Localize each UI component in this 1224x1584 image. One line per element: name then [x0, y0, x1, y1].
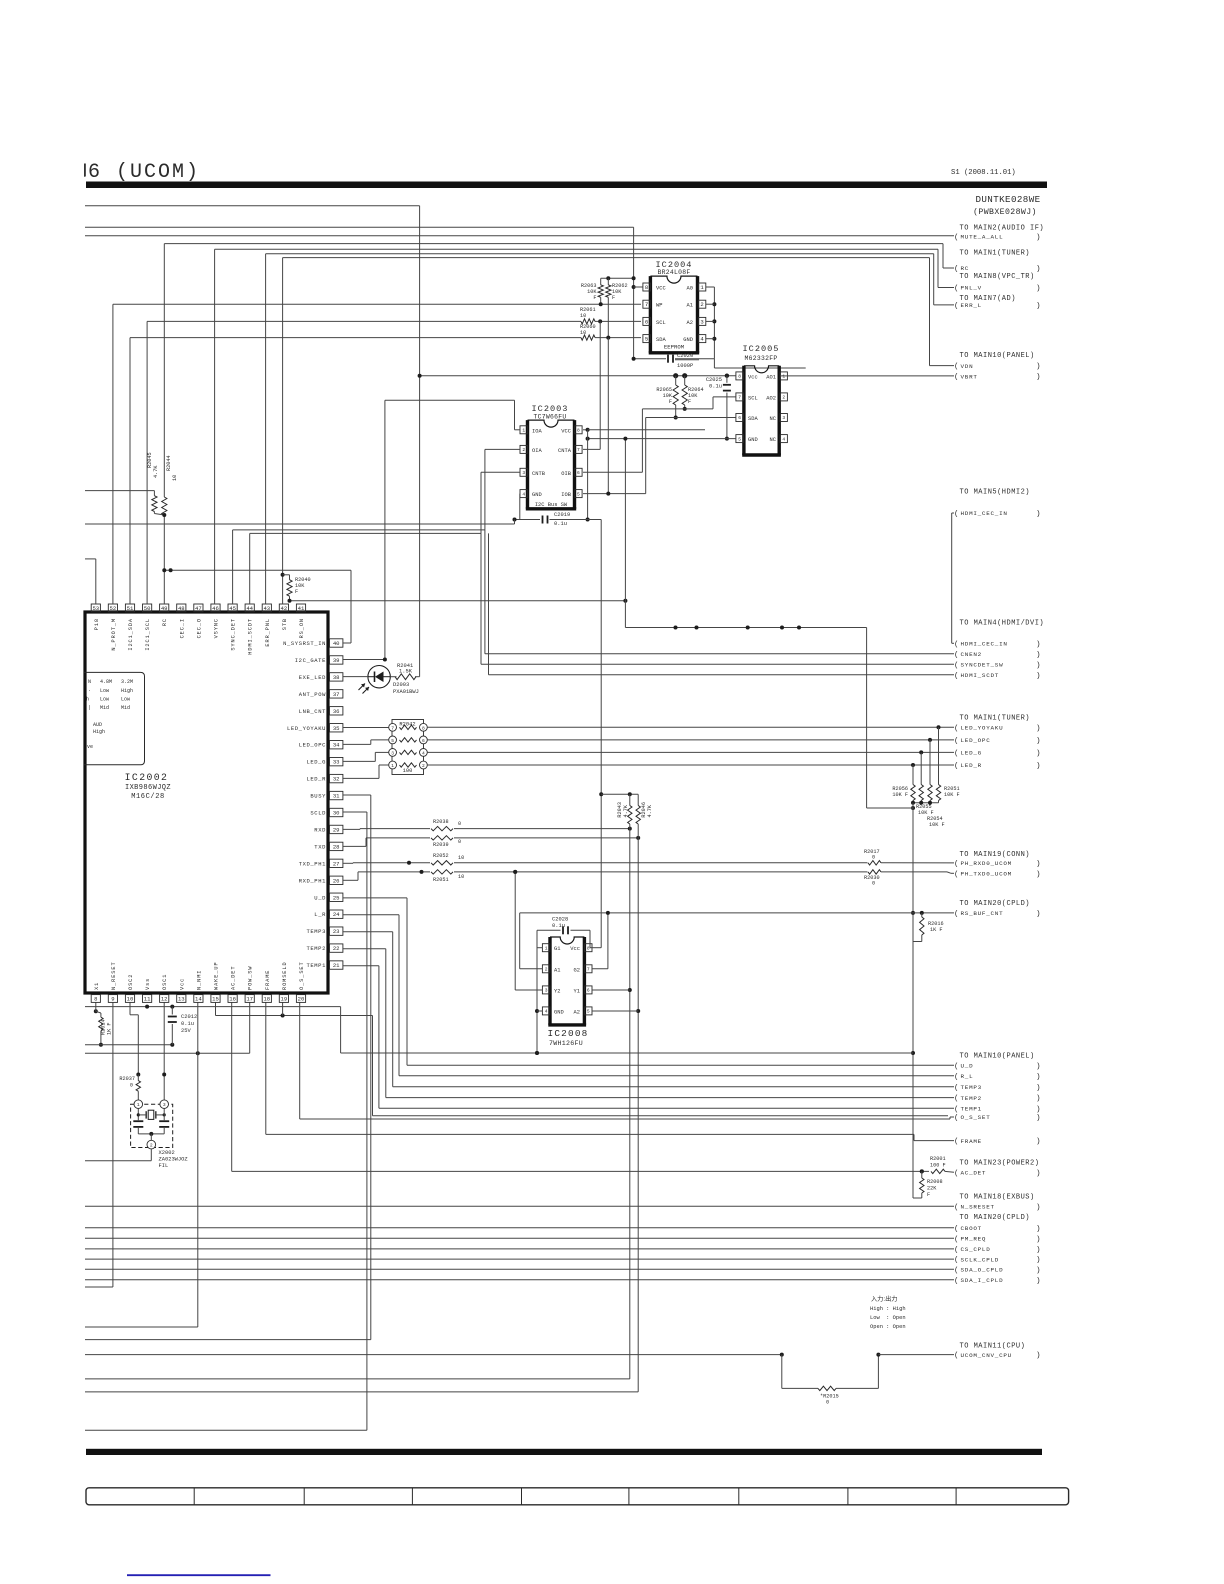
svg-text:): )	[1036, 363, 1041, 371]
svg-text:SYNCDET_SW: SYNCDET_SW	[961, 662, 1004, 669]
svg-text:TO MAIN20(CPLD): TO MAIN20(CPLD)	[960, 1214, 1031, 1222]
svg-text:L_R: L_R	[314, 911, 326, 918]
svg-text:O_S_SET: O_S_SET	[961, 1114, 991, 1121]
wire IC2005 SDA run	[646, 417, 736, 419]
svg-text:A2: A2	[687, 320, 693, 326]
wire pin29 RXD line	[343, 828, 360, 830]
svg-text:1K F: 1K F	[930, 927, 942, 933]
svg-text:SCLD: SCLD	[310, 810, 326, 817]
wire pin24 L_R run	[343, 914, 399, 916]
svg-text:): )	[1036, 266, 1041, 274]
wire IC2003 GND pin to C2019	[519, 493, 521, 495]
svg-text:TO MAIN20(CPLD): TO MAIN20(CPLD)	[960, 900, 1031, 908]
resistor R2008 22K F	[920, 1169, 924, 1173]
svg-text:UCOM_CNV_CPU: UCOM_CNV_CPU	[961, 1352, 1012, 1359]
svg-text:SDA: SDA	[656, 337, 666, 343]
svg-text:(: (	[954, 285, 959, 293]
svg-text:22: 22	[333, 945, 340, 952]
svg-text:TEMP1: TEMP1	[306, 962, 326, 969]
microcontroller IC2002 body outline	[85, 612, 328, 993]
IC2005 left pin boxes	[736, 372, 743, 380]
svg-text:35: 35	[333, 725, 340, 732]
svg-text:CNTB: CNTB	[532, 471, 546, 477]
svg-text:47: 47	[195, 605, 202, 612]
wire G1 rail to GND chain	[537, 1052, 913, 1054]
IC2003 left pin boxes	[520, 426, 527, 434]
svg-text:4: 4	[782, 436, 785, 442]
wire R2063 bottom to WP	[600, 297, 602, 304]
resistor R2064 10K F	[682, 385, 687, 405]
wire pin53 to left edge	[85, 558, 96, 560]
svg-text:SCL: SCL	[656, 320, 666, 326]
svg-text:15: 15	[212, 996, 219, 1003]
svg-text:TO MAIN4(HDMI/DVI): TO MAIN4(HDMI/DVI)	[960, 620, 1045, 628]
wire pin39 I2C_GATE to rail	[343, 659, 385, 661]
svg-text:LED_G: LED_G	[961, 750, 982, 757]
svg-text:BUSY: BUSY	[310, 793, 326, 800]
svg-text:IC2005: IC2005	[743, 344, 780, 354]
svg-text:ANT_POW: ANT_POW	[299, 691, 326, 698]
svg-text:ve: ve	[87, 744, 93, 750]
svg-text:6: 6	[587, 988, 590, 994]
svg-text:R2001: R2001	[930, 1156, 946, 1162]
svg-text:F: F	[927, 1192, 930, 1198]
svg-text:SDA_I_CPLD: SDA_I_CPLD	[961, 1277, 1004, 1284]
wire pin51 SDA line	[130, 337, 581, 339]
svg-text:Vcc: Vcc	[179, 978, 185, 990]
svg-text:High: High	[121, 688, 133, 694]
wire HDMI_CEC bracket	[951, 513, 953, 643]
wire RS_BUF_CNT line	[520, 912, 954, 914]
svg-text:7: 7	[577, 447, 580, 453]
svg-text:F: F	[295, 589, 298, 595]
svg-text:53: 53	[92, 605, 99, 612]
svg-text:N_SYSRST_IN: N_SYSRST_IN	[283, 640, 326, 647]
IC2004 right pin boxes	[698, 283, 705, 291]
footer link underline (blue)	[127, 1574, 271, 1576]
svg-text:(: (	[954, 1095, 959, 1103]
svg-text:6: 6	[738, 415, 741, 421]
svg-text:TO MAIN18(EXBUS): TO MAIN18(EXBUS)	[960, 1194, 1035, 1202]
capacitor C2028 0.1u	[537, 929, 561, 931]
svg-text:(: (	[954, 861, 959, 869]
svg-text:I2C1_SDA: I2C1_SDA	[128, 618, 134, 651]
svg-text:TO MAIN8(VPC_TR): TO MAIN8(VPC_TR)	[960, 273, 1035, 281]
wire LED_R long line	[427, 764, 954, 766]
svg-text:8: 8	[577, 427, 580, 433]
svg-text:(: (	[954, 1225, 959, 1233]
resistor R2043 4.7K	[629, 794, 631, 805]
svg-text:): )	[1036, 662, 1041, 670]
svg-text:7: 7	[391, 725, 394, 731]
wire GND chain to R2008	[913, 1197, 922, 1199]
svg-text:11: 11	[144, 996, 151, 1003]
svg-text:10: 10	[458, 855, 464, 861]
wire IC2005 AO1 to VBRT	[787, 375, 954, 377]
resistor R2040 10K F	[281, 573, 285, 577]
svg-text:D2003: D2003	[393, 682, 409, 688]
svg-text:CNEN2: CNEN2	[961, 651, 982, 658]
svg-text:): )	[1036, 1073, 1041, 1081]
svg-text:5: 5	[738, 436, 741, 442]
svg-text:CEC_O: CEC_O	[196, 618, 202, 638]
svg-text:EXE_LED: EXE_LED	[299, 674, 326, 681]
svg-text:STB: STB	[282, 618, 288, 630]
svg-text:0.1u: 0.1u	[709, 384, 722, 390]
wire IC2005 GND run	[588, 438, 736, 440]
wire HDMI_SCDT line	[489, 674, 955, 676]
wire IC2008 A1 up	[520, 968, 543, 970]
svg-text:42: 42	[281, 605, 288, 612]
wire pin16 AC_DET run	[231, 1003, 233, 1172]
svg-text:(: (	[954, 374, 959, 382]
svg-text:52: 52	[110, 605, 117, 612]
svg-text:C2025: C2025	[706, 377, 722, 383]
svg-text:CBOOT: CBOOT	[961, 1225, 982, 1232]
capacitor C2012 0.1u 25V	[171, 1007, 173, 1015]
svg-text:A1: A1	[687, 303, 693, 309]
svg-text:ZA023WJOZ: ZA023WJOZ	[159, 1157, 189, 1163]
svg-text:31: 31	[333, 793, 340, 800]
svg-text:26: 26	[333, 877, 340, 884]
wire pin14 N_NMI loop	[197, 1003, 199, 1328]
capacitor C2025 0.1u	[726, 376, 728, 383]
svg-text:0: 0	[458, 821, 461, 827]
svg-text:R_L: R_L	[961, 1073, 974, 1080]
svg-text:18: 18	[263, 996, 270, 1003]
svg-text:): )	[1036, 1257, 1041, 1265]
svg-text:4: 4	[522, 491, 525, 497]
svg-text:Low : Open: Low : Open	[870, 1315, 906, 1321]
svg-text:TC7W66FU: TC7W66FU	[533, 414, 566, 421]
svg-text:C2028: C2028	[552, 917, 568, 923]
svg-text:RS_ON: RS_ON	[299, 618, 305, 638]
svg-text:TO MAIN10(PANEL): TO MAIN10(PANEL)	[960, 352, 1035, 360]
svg-text:5: 5	[645, 336, 648, 343]
svg-text:7: 7	[587, 966, 590, 972]
svg-text:3: 3	[391, 750, 394, 756]
resistor R2052 10	[431, 861, 453, 865]
svg-text:*R2015: *R2015	[820, 1394, 839, 1400]
svg-text:0: 0	[826, 1400, 829, 1406]
svg-text:33: 33	[333, 759, 340, 766]
svg-text:8: 8	[645, 284, 648, 291]
svg-text:U_D: U_D	[961, 1062, 974, 1069]
svg-text:R2039: R2039	[433, 842, 449, 848]
resistor R2017 0 on PH_RXD0	[868, 861, 881, 865]
svg-text:R2008: R2008	[927, 1179, 943, 1185]
svg-text:HDMI_SCDT: HDMI_SCDT	[248, 618, 254, 655]
svg-text:36: 36	[333, 708, 340, 715]
svg-text:4: 4	[545, 1009, 548, 1015]
svg-text:8: 8	[422, 725, 425, 731]
svg-text:0.1u: 0.1u	[554, 521, 567, 527]
wire C2028 right to Vcc	[589, 930, 591, 947]
svg-text:LED_G: LED_G	[306, 759, 326, 766]
svg-text:Y2: Y2	[554, 988, 560, 994]
svg-text:8: 8	[738, 374, 741, 380]
svg-text:45: 45	[229, 605, 236, 612]
wire LED_G long line	[427, 751, 954, 753]
wire crystal pin2 to left edge	[150, 1149, 152, 1161]
svg-text:24: 24	[333, 911, 340, 918]
resistor R2044 10 on RC line	[162, 497, 167, 515]
svg-text:TEMP3: TEMP3	[306, 928, 326, 935]
svg-text:): )	[1036, 1106, 1041, 1114]
svg-text:TO MAIN23(POWER2): TO MAIN23(POWER2)	[960, 1160, 1040, 1168]
svg-text:(: (	[954, 871, 959, 879]
svg-text:): )	[1036, 725, 1041, 733]
svg-text:(: (	[954, 750, 959, 758]
svg-text:10: 10	[172, 475, 178, 481]
svg-text:): )	[1036, 1352, 1041, 1360]
svg-text:VBRT: VBRT	[961, 373, 978, 380]
svg-text:0: 0	[872, 855, 875, 861]
svg-text:21: 21	[333, 962, 340, 969]
svg-text:M62332FP: M62332FP	[744, 355, 777, 362]
resistor R2016 1K F	[920, 911, 924, 915]
svg-text:8: 8	[587, 945, 590, 951]
svg-text:0.1u: 0.1u	[181, 1021, 194, 1027]
svg-text:7WH126FU: 7WH126FU	[549, 1040, 583, 1047]
wire vertical x=419.6 (I2C_GATE/Vcc rail)	[419, 206, 421, 677]
svg-text:): )	[1036, 641, 1041, 649]
svg-text:PXA01BWJ: PXA01BWJ	[393, 689, 419, 695]
capacitor C2019 0.1u	[515, 519, 541, 521]
svg-text:C2020: C2020	[677, 353, 693, 359]
svg-text:4: 4	[422, 750, 425, 756]
svg-text:5: 5	[587, 1009, 590, 1015]
svg-text:46: 46	[212, 605, 219, 612]
svg-text:TO MAIN11(CPU): TO MAIN11(CPU)	[960, 1342, 1026, 1350]
svg-text:17: 17	[246, 996, 253, 1003]
svg-text:(: (	[954, 662, 959, 670]
wire pin33 LED_G jog	[343, 760, 375, 762]
svg-text:IC2002: IC2002	[125, 772, 169, 783]
svg-text:10: 10	[580, 330, 586, 336]
resistor R2062 10K F	[606, 285, 611, 297]
svg-text:P18: P18	[94, 618, 100, 630]
wire pin22 TEMP2 run	[343, 948, 386, 950]
wire pin23 TEMP3 run	[343, 931, 393, 933]
svg-text:40: 40	[333, 640, 340, 647]
svg-text:IC2003: IC2003	[532, 404, 569, 414]
svg-text:TO MAIN19(CONN): TO MAIN19(CONN)	[960, 851, 1031, 859]
wire pin49 RC staircase	[164, 243, 943, 245]
wire V630 down from RXD	[629, 829, 631, 1379]
wire down to GND chain	[866, 628, 868, 809]
svg-text:A1: A1	[554, 967, 560, 973]
svg-text:LED_OPC: LED_OPC	[299, 742, 326, 749]
IC2004 EEPROM body	[650, 276, 697, 283]
IC2003 body	[528, 420, 575, 427]
svg-text:25: 25	[333, 894, 340, 901]
svg-text:X2002: X2002	[159, 1150, 175, 1156]
svg-text:LED_R: LED_R	[306, 776, 326, 783]
svg-text:41: 41	[298, 605, 305, 612]
svg-text:6: 6	[422, 738, 425, 744]
svg-text:LED_YOYAKU: LED_YOYAKU	[961, 725, 1004, 732]
svg-text:(: (	[954, 1115, 959, 1123]
svg-text:3: 3	[782, 415, 785, 421]
resistor array R2042 outline	[392, 720, 424, 775]
wire CNEN2 line	[485, 653, 954, 655]
wire IC2008 G2 up	[592, 968, 608, 970]
svg-text:CEC_I: CEC_I	[179, 618, 185, 638]
svg-text:R2038: R2038	[433, 819, 449, 825]
svg-text:): )	[1036, 763, 1041, 771]
svg-text:3: 3	[522, 470, 525, 476]
resistor R2037 0	[137, 1075, 139, 1081]
svg-text:14: 14	[195, 996, 202, 1003]
svg-text:37: 37	[333, 691, 340, 698]
svg-text:5: 5	[391, 738, 394, 744]
svg-text:4.7K: 4.7K	[647, 804, 653, 817]
crystal element	[137, 1109, 139, 1121]
wire CEC gate run to array	[624, 439, 626, 628]
crystal internal capacitors	[133, 1120, 143, 1122]
wire IC2005 SCL run	[713, 396, 736, 398]
svg-text:): )	[1036, 1063, 1041, 1071]
svg-text:(: (	[954, 1106, 959, 1114]
svg-text:TEMP3: TEMP3	[961, 1084, 982, 1091]
svg-text:·: ·	[88, 688, 91, 694]
svg-text:(: (	[954, 1204, 959, 1212]
wire IC2008 A2 to V638	[592, 1010, 638, 1012]
svg-text:6: 6	[577, 470, 580, 476]
svg-text:4.8M: 4.8M	[100, 679, 112, 685]
svg-text:TO MAIN2(AUDIO IF): TO MAIN2(AUDIO IF)	[960, 225, 1045, 233]
resistor R2014 1K F	[94, 1009, 98, 1013]
svg-text:N_NMI: N_NMI	[196, 970, 202, 990]
svg-text:2: 2	[422, 763, 425, 769]
svg-text:38: 38	[333, 674, 340, 681]
wire pin38 EXE_LED to D2003	[343, 676, 368, 678]
wire pin35 LED_YOYAKU	[343, 727, 389, 729]
svg-text:OIB: OIB	[561, 471, 571, 477]
svg-text:20: 20	[298, 996, 305, 1003]
svg-text:TO MAIN10(PANEL): TO MAIN10(PANEL)	[960, 1052, 1035, 1060]
svg-text:入力:出力: 入力:出力	[871, 1295, 897, 1303]
svg-text:GND: GND	[683, 337, 693, 343]
svg-text:VDN: VDN	[961, 363, 974, 370]
resistor R2038 0	[431, 826, 453, 830]
wire LED_OPC long line	[427, 739, 954, 741]
svg-text:2: 2	[545, 966, 548, 972]
svg-text:N6 (UCOM): N6 (UCOM)	[74, 161, 200, 184]
svg-text:POW_SW: POW_SW	[248, 966, 254, 990]
svg-text:RXD_PH1: RXD_PH1	[299, 877, 326, 884]
svg-text:ERR_PNL: ERR_PNL	[265, 618, 271, 647]
IC2002 top pin boxes 53-41	[91, 604, 100, 612]
resistor R2041 1.5K	[395, 674, 416, 680]
svg-text:(: (	[954, 763, 959, 771]
svg-text:HDMI_CEC_IN: HDMI_CEC_IN	[961, 641, 1008, 648]
svg-text:): )	[1036, 911, 1041, 919]
svg-text:EEPROM: EEPROM	[664, 344, 684, 351]
svg-text:(: (	[954, 234, 959, 242]
resistor R2065 10K F	[673, 385, 678, 405]
svg-text:N_SRESET: N_SRESET	[961, 1203, 995, 1210]
svg-text:G1: G1	[554, 946, 560, 952]
svg-text:PH_RXD0_UCOM: PH_RXD0_UCOM	[961, 860, 1012, 867]
wire R2062 bottom to SDA and IOB	[607, 297, 609, 337]
svg-text:Low: Low	[100, 697, 109, 703]
svg-text:AUD: AUD	[93, 722, 102, 728]
svg-text:): )	[1036, 303, 1041, 311]
svg-text:): )	[1036, 1247, 1041, 1255]
svg-text:Low: Low	[100, 688, 109, 694]
wire pin27 TXD_PH1 line	[343, 862, 353, 864]
svg-text:(: (	[954, 651, 959, 659]
svg-text:3: 3	[545, 988, 548, 994]
svg-text:FRAME: FRAME	[961, 1138, 982, 1145]
svg-text:PNL_V: PNL_V	[961, 285, 982, 292]
svg-text:): )	[1036, 1204, 1041, 1212]
svg-text:): )	[1036, 1277, 1041, 1285]
wire IC2008 Y1 to V630	[592, 989, 630, 991]
wire GND rail2	[85, 1044, 172, 1046]
svg-text:CS_CPLD: CS_CPLD	[961, 1246, 991, 1253]
IC2004 left pin boxes	[643, 283, 650, 291]
svg-text:S1 (2008.11.01): S1 (2008.11.01)	[951, 169, 1016, 177]
svg-text:(: (	[954, 1170, 959, 1178]
svg-text:): )	[1036, 651, 1041, 659]
resistors R2056/R2055/R2054/R2051 10K F pull-downs	[912, 765, 914, 785]
svg-text:I2C_GATE: I2C_GATE	[295, 657, 326, 664]
svg-text:): )	[1036, 738, 1041, 746]
svg-text:10K F: 10K F	[892, 792, 908, 798]
wire IC2004 VCC tap	[632, 285, 636, 289]
wire pin17 POW_SW run	[249, 1003, 251, 1054]
svg-text:GND: GND	[748, 437, 758, 443]
svg-text:10: 10	[458, 874, 464, 880]
svg-text:I2C1_SCL: I2C1_SCL	[145, 618, 151, 651]
svg-text:(: (	[954, 1084, 959, 1092]
svg-text:(: (	[954, 511, 959, 519]
wire top line 2 to x=633.6	[85, 226, 634, 228]
wire SYNCDET_SW line	[481, 663, 954, 665]
svg-text:VSYNC: VSYNC	[214, 618, 220, 638]
wire IOA run to CEC rail	[515, 429, 521, 431]
svg-text:IOB: IOB	[561, 492, 571, 498]
svg-text:19: 19	[281, 996, 288, 1003]
wire array bottoms join	[913, 802, 939, 804]
svg-text:2: 2	[700, 301, 703, 308]
svg-text:FRAME: FRAME	[265, 970, 271, 990]
svg-text:): )	[1036, 750, 1041, 758]
svg-text:Y1: Y1	[574, 988, 580, 994]
svg-text:C2012: C2012	[181, 1014, 197, 1020]
svg-text:(: (	[954, 738, 959, 746]
wire pin19 ROMSELD stub	[282, 1003, 284, 1016]
svg-text:34: 34	[333, 742, 340, 749]
svg-text:VCC: VCC	[656, 286, 666, 292]
wire pin52 to IC2004 WP	[113, 303, 641, 305]
svg-text:1: 1	[391, 763, 394, 769]
svg-text:RC: RC	[961, 265, 970, 272]
svg-text:TXD_PH1: TXD_PH1	[299, 860, 326, 867]
svg-text:1: 1	[782, 374, 785, 380]
svg-text:DUNTKE028WE: DUNTKE028WE	[975, 194, 1040, 205]
svg-text:PH_TXD0_UCOM: PH_TXD0_UCOM	[961, 871, 1012, 878]
svg-text:): )	[1036, 1267, 1041, 1275]
svg-text:TO MAIN1(TUNER): TO MAIN1(TUNER)	[960, 250, 1031, 258]
wire pin12 OSC1 down	[163, 1003, 165, 1101]
footer revision table	[86, 1488, 1069, 1505]
footer thick rule	[86, 1449, 1042, 1455]
svg-text:43: 43	[263, 605, 270, 612]
